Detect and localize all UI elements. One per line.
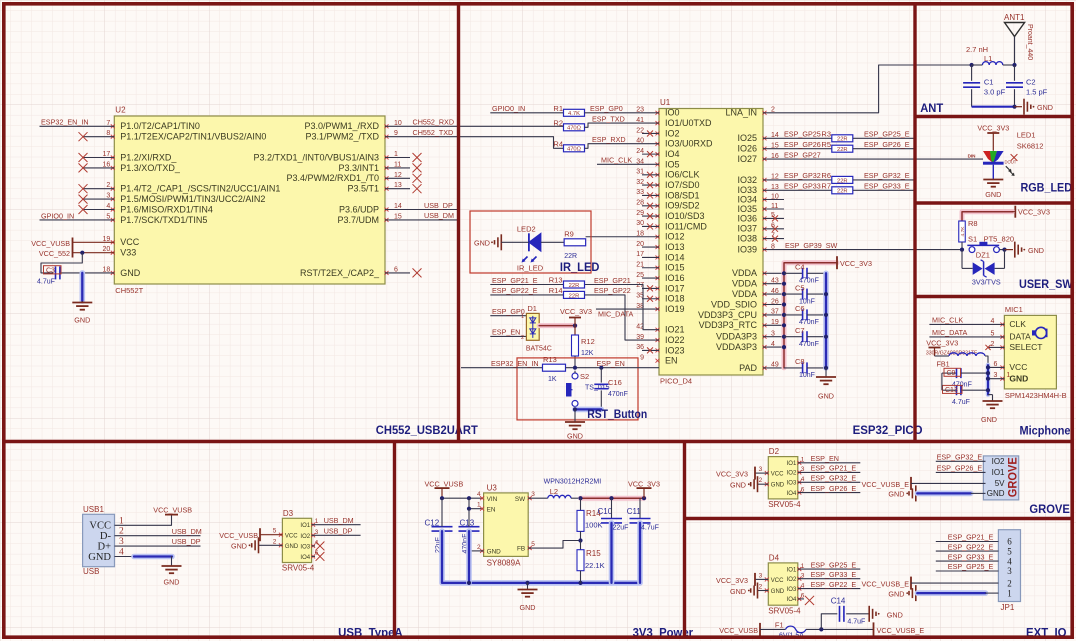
ground symbol cap bank — [816, 368, 836, 401]
svg-text:2: 2 — [1007, 578, 1012, 588]
D3 pin 6 IO4 nc — [300, 549, 324, 561]
section title EXT_IO — [1026, 626, 1067, 640]
power flag VCC_3V3 USER_SW — [1015, 206, 1050, 218]
resistor R2 — [553, 118, 659, 131]
LED2 IR — [517, 224, 544, 272]
svg-text:VCC_3V3: VCC_3V3 — [716, 576, 748, 585]
border divider horizontal main — [2, 440, 1074, 443]
svg-text:PAD: PAD — [739, 363, 757, 373]
svg-text:ESP_EN: ESP_EN — [492, 328, 520, 337]
wire LNA_IN route — [763, 65, 968, 113]
svg-text:P1.7/SCK/TXD1/TIN5: P1.7/SCK/TXD1/TIN5 — [120, 215, 207, 225]
wire ESP_GP25_E — [853, 130, 914, 139]
U2 pin 3 P1.5 — [79, 193, 266, 204]
svg-text:SPM1423HM4H-B: SPM1423HM4H-B — [1005, 391, 1067, 400]
JP1 pin 3 — [936, 562, 1012, 576]
power flag VCC_3V3 out — [628, 480, 660, 499]
svg-text:ESP_GP26_E: ESP_GP26_E — [864, 140, 910, 149]
U3 pin 4 VIN — [477, 491, 498, 503]
svg-text:D1: D1 — [527, 304, 537, 313]
U1 pin 23 IO0 — [636, 107, 679, 118]
power flag VCC_VUSB at D3 — [219, 528, 260, 541]
JP1 pin 4 — [936, 552, 1012, 566]
svg-text:VDDA: VDDA — [732, 289, 757, 299]
svg-text:2: 2 — [521, 335, 524, 341]
no-connect DOUT — [1011, 154, 1018, 161]
svg-text:USB: USB — [83, 567, 99, 576]
svg-text:P3.4/PWM2/RXD1_/T0: P3.4/PWM2/RXD1_/T0 — [286, 173, 379, 183]
D4 pin 3 IO2 — [787, 570, 861, 583]
svg-text:S2: S2 — [580, 372, 589, 381]
svg-text:IO1/U0TXD: IO1/U0TXD — [665, 118, 712, 128]
border divider USB_TypeA/3V3_Power — [393, 442, 396, 640]
section title USB_TypeA — [338, 626, 403, 640]
resistor R12 pullup — [572, 326, 595, 368]
svg-text:CH552_TXD: CH552_TXD — [413, 128, 454, 137]
svg-text:SY8089A: SY8089A — [487, 558, 521, 567]
border divider 3V3_Power/GROVE column — [683, 442, 686, 640]
wire R8 to SW node — [960, 242, 964, 252]
svg-text:P3.1/PWM2_/TXD: P3.1/PWM2_/TXD — [305, 132, 379, 142]
USB1 pin 4 GND — [88, 548, 124, 563]
resistor R14 100K — [577, 498, 603, 542]
svg-text:VCC_VUSB: VCC_VUSB — [425, 480, 464, 489]
border divider USER_SW/Micphone — [915, 295, 1074, 298]
svg-text:3: 3 — [759, 466, 763, 473]
svg-text:VDDA3P3: VDDA3P3 — [716, 332, 757, 342]
svg-text:VCC: VCC — [771, 578, 784, 584]
U1 pin 28 IO9/SD2 — [636, 200, 699, 211]
svg-text:F1: F1 — [775, 621, 784, 630]
power flag VCC_3V3 at D2 — [716, 467, 755, 480]
svg-text:4.7K: 4.7K — [960, 226, 966, 237]
svg-text:ESP_GP21_E: ESP_GP21_E — [811, 464, 857, 473]
svg-text:3V3/TVS: 3V3/TVS — [972, 278, 1001, 287]
svg-text:EN: EN — [665, 356, 678, 366]
JP1 pin 6 — [936, 533, 1012, 547]
svg-text:IO16: IO16 — [665, 273, 685, 283]
svg-text:ESP_GP32_E: ESP_GP32_E — [864, 171, 910, 180]
svg-text:12K: 12K — [581, 350, 594, 357]
U2 pin 10 P3.0 — [304, 120, 401, 131]
svg-text:GND: GND — [567, 431, 583, 440]
svg-text:C4: C4 — [795, 263, 805, 272]
U1 pin 20 IO13 — [636, 241, 684, 252]
svg-text:22R: 22R — [837, 189, 848, 195]
svg-text:470nF: 470nF — [608, 391, 628, 398]
svg-text:VDD3P3_RTC: VDD3P3_RTC — [699, 320, 758, 330]
svg-text:22R: 22R — [569, 293, 580, 299]
svg-text:VCC: VCC — [771, 472, 784, 478]
svg-text:VCC_VUSB_E: VCC_VUSB_E — [877, 626, 925, 635]
net label ESP_GP0 — [590, 104, 623, 113]
svg-text:EN: EN — [487, 507, 496, 514]
svg-text:ESP_GP32: ESP_GP32 — [784, 171, 821, 180]
svg-text:V33: V33 — [120, 248, 136, 258]
U2 pin 20 V33 — [73, 246, 137, 257]
svg-text:DATA: DATA — [1009, 332, 1031, 342]
svg-text:ESP_GP21: ESP_GP21 — [594, 276, 631, 285]
GROVE pin GND — [987, 489, 1005, 498]
wire MIC_DATA to U1 IO19 — [596, 309, 659, 318]
U2 pin 18 GND — [80, 266, 141, 277]
svg-text:VCC: VCC — [285, 533, 298, 539]
capacitor C16 — [594, 368, 628, 410]
svg-text:4: 4 — [1007, 556, 1012, 566]
svg-text:470Ω: 470Ω — [567, 126, 582, 132]
USB1 pin 3 D+ — [97, 537, 124, 552]
svg-text:IO2: IO2 — [992, 457, 1005, 466]
U1 pin 2 LNA_IN — [725, 107, 775, 118]
svg-text:3: 3 — [531, 491, 535, 498]
svg-text:VCC_VUSB: VCC_VUSB — [153, 506, 192, 515]
ground symbol RGB — [983, 180, 1003, 200]
svg-text:C3: C3 — [46, 267, 55, 274]
U1 pin 10 IO34 — [737, 193, 784, 204]
U1 pin 24 IO4 — [636, 148, 679, 159]
wire USB_DM from U2 — [385, 211, 457, 220]
capacitor C14 4.7uF — [821, 597, 869, 630]
svg-text:R1: R1 — [553, 104, 563, 113]
svg-text:22R: 22R — [564, 253, 577, 260]
border divider GROVE/EXT_IO — [685, 517, 1075, 520]
svg-text:CLK: CLK — [1009, 319, 1026, 329]
section title ESP32_PICO — [853, 423, 923, 437]
wire USB_DM from USB1 — [115, 527, 202, 536]
svg-text:MIC_CLK: MIC_CLK — [601, 156, 632, 165]
svg-text:4.7uF: 4.7uF — [847, 619, 865, 626]
section title ANT — [920, 101, 944, 115]
capacitor C1 3.0pF — [963, 65, 1005, 107]
svg-text:L1: L1 — [984, 54, 992, 63]
chip U1 ESP32-PICO-D4 body — [659, 98, 763, 386]
svg-text:JP1: JP1 — [1001, 603, 1015, 612]
svg-text:ESP_GP25_E: ESP_GP25_E — [948, 562, 994, 571]
D4 pin 3 VCC — [755, 572, 784, 584]
svg-text:IO18: IO18 — [665, 294, 685, 304]
U2 pin 11 P3.3 — [338, 161, 421, 172]
U2 pin 8 P1.1 — [79, 130, 267, 141]
svg-text:Proant_440: Proant_440 — [1026, 24, 1033, 60]
svg-text:IO15: IO15 — [665, 263, 685, 273]
U1 pin 43 VDDA — [732, 278, 784, 289]
svg-text:100K: 100K — [585, 521, 603, 530]
svg-text:GND: GND — [771, 483, 785, 489]
svg-text:VCC: VCC — [120, 237, 140, 247]
svg-text:IO26: IO26 — [737, 144, 757, 154]
svg-text:IO1: IO1 — [300, 523, 310, 529]
MIC1 pin 5 DATA — [929, 328, 1031, 342]
LED1 SK6812 RGB — [968, 131, 1044, 165]
svg-text:VCC_3V3: VCC_3V3 — [1018, 208, 1050, 217]
svg-text:IO27: IO27 — [737, 154, 757, 164]
svg-text:GPIO0_IN: GPIO0_IN — [41, 211, 74, 220]
svg-text:ESP_GP33: ESP_GP33 — [784, 182, 821, 191]
JP1 pin 5 — [936, 542, 1012, 556]
wire CH552_TXD — [385, 128, 564, 148]
power flag VCC_3V3 cap bank — [837, 256, 872, 269]
svg-text:22R: 22R — [837, 147, 848, 153]
svg-text:IO32: IO32 — [737, 175, 757, 185]
svg-text:IO3: IO3 — [787, 587, 797, 593]
MIC1 pins 3 1 GND — [986, 372, 1028, 384]
svg-text:IO19: IO19 — [665, 304, 685, 314]
USB1 pin 1 VCC — [89, 516, 124, 531]
svg-text:470nF: 470nF — [799, 341, 819, 348]
capacitor C11 4.7uF — [627, 498, 659, 583]
svg-text:VCC: VCC — [1009, 362, 1027, 372]
svg-text:IO2: IO2 — [300, 534, 310, 540]
U3 pin 1 EN — [477, 502, 496, 514]
U1 pin 26 VDD_SDIO — [711, 298, 784, 309]
wire MIC_CLK to U1 IO5 — [597, 156, 659, 165]
U1 pin 11 IO35 — [737, 203, 784, 214]
U3 pin 5 FB — [517, 541, 580, 553]
net label VCC_552 — [39, 249, 70, 258]
D4 pin 4 IO3 — [787, 580, 861, 593]
capacitor C2 1.5pF — [1006, 65, 1048, 107]
switch S2 TS_015 — [567, 371, 610, 410]
U1 pin 31 IO6/CLK — [636, 169, 699, 180]
svg-text:C11: C11 — [627, 507, 642, 516]
svg-text:D2: D2 — [769, 447, 780, 456]
svg-text:VCC_3V3: VCC_3V3 — [926, 338, 958, 347]
svg-text:SK6812: SK6812 — [1017, 142, 1044, 151]
svg-text:IO36: IO36 — [737, 213, 757, 223]
svg-text:470Ω: 470Ω — [567, 147, 582, 153]
wire ESP_GP21 route to IO21 — [490, 276, 659, 330]
ground symbol power — [518, 583, 538, 612]
D3 pin 3 IO2 USB_DP — [300, 526, 360, 539]
svg-text:IO39: IO39 — [737, 245, 757, 255]
U1 pin 46 VDDA — [732, 288, 784, 299]
svg-text:CH552_RXD: CH552_RXD — [413, 118, 455, 127]
ground symbol at D2 (side) — [730, 476, 757, 492]
svg-text:VDDA: VDDA — [732, 279, 757, 289]
svg-text:VDD3P3_CPU: VDD3P3_CPU — [698, 310, 757, 320]
svg-text:MIC_DATA: MIC_DATA — [598, 309, 633, 318]
U2 pin 19 VCC — [73, 236, 140, 247]
svg-text:ESP_GP25: ESP_GP25 — [784, 130, 821, 139]
section title Micphone — [1020, 424, 1071, 438]
svg-text:VIN: VIN — [487, 496, 498, 503]
svg-text:2: 2 — [759, 584, 763, 591]
D3 pin 2 GND — [259, 538, 299, 550]
D2 pin 1 IO1 ESP_EN — [787, 454, 861, 467]
svg-text:ESP_EN: ESP_EN — [811, 454, 839, 463]
svg-text:D3: D3 — [283, 509, 294, 518]
svg-text:Micphone: Micphone — [1020, 424, 1071, 438]
U1 pin 44 VDDA — [732, 268, 784, 278]
connector JP1 body — [998, 530, 1020, 612]
svg-text:DIN: DIN — [968, 154, 977, 159]
wire ESP_GP22 route to IO22 — [490, 286, 659, 340]
svg-text:ESP_GP27: ESP_GP27 — [784, 150, 821, 159]
ground symbol mic — [981, 395, 1002, 424]
wire gnd rail power — [442, 531, 640, 585]
svg-text:GND: GND — [888, 589, 904, 598]
svg-text:5V: 5V — [995, 479, 1005, 488]
svg-text:ESP_GP32_E: ESP_GP32_E — [811, 474, 857, 483]
svg-text:R13: R13 — [549, 276, 563, 285]
U2 pin 1 P3.2 — [253, 151, 421, 162]
svg-text:ESP_GP0: ESP_GP0 — [590, 104, 623, 113]
power flag VCC_3V3 at D4 — [716, 573, 755, 586]
wire VCC to R8 — [962, 212, 1015, 221]
svg-text:ESP_GP21_E: ESP_GP21_E — [948, 533, 994, 542]
U1 pin 6 IO37 — [737, 223, 784, 234]
U1 pin 32 IO7/SD0 — [636, 179, 699, 190]
svg-text:RST/T2EX_/CAP2_: RST/T2EX_/CAP2_ — [300, 268, 380, 278]
wire ANT gnd rail — [972, 105, 1022, 109]
svg-text:6: 6 — [1007, 537, 1012, 547]
svg-text:GND: GND — [285, 544, 299, 550]
wire ESP_GP27 to RGB LED — [763, 150, 983, 159]
svg-text:LED1: LED1 — [1017, 131, 1036, 140]
svg-text:GROVE: GROVE — [1029, 502, 1070, 516]
wire ESP_EN node — [566, 359, 660, 370]
group box RST_Button — [517, 358, 638, 420]
USB1 pin 2 D- — [100, 527, 124, 542]
svg-text:R14: R14 — [549, 286, 563, 295]
svg-text:2: 2 — [477, 544, 481, 551]
U1 pin 40 IO3/U0RXD — [636, 138, 713, 149]
svg-text:IO3: IO3 — [300, 544, 310, 550]
svg-text:IO5: IO5 — [665, 159, 680, 169]
D2 pin 3 IO2 ESP_GP21_E — [787, 464, 861, 477]
capacitor C6 470nF — [784, 304, 826, 326]
svg-text:SRV05-4: SRV05-4 — [768, 500, 801, 509]
svg-text:D4: D4 — [769, 553, 780, 562]
ground symbol RST — [565, 409, 585, 440]
power flag VCC_VUSB_E at F1 — [842, 622, 924, 636]
wire JP1 gnd — [917, 590, 998, 596]
wire LED2 to R9 — [541, 241, 564, 243]
U1 pin 38 IO19 — [636, 303, 684, 314]
U1 pin 41 IO1/U0TXD — [636, 117, 712, 128]
U1 pin 12 IO32 — [737, 174, 778, 185]
svg-text:L2: L2 — [550, 487, 558, 496]
inductor L2 2.2uH — [544, 479, 602, 499]
wire ESP_GP26_E — [853, 140, 914, 149]
svg-text:IR_LED: IR_LED — [560, 260, 600, 274]
resistor R13 1K — [543, 355, 566, 383]
D2 pin 3 VCC — [755, 466, 784, 478]
svg-text:RGB_LED: RGB_LED — [1021, 180, 1073, 194]
svg-text:IO3/U0RXD: IO3/U0RXD — [665, 139, 713, 149]
ground symbol IR (side) — [474, 234, 521, 250]
svg-text:4.7uF: 4.7uF — [952, 399, 970, 406]
wire ESP_GP32 — [763, 171, 832, 180]
U1 pin 14 IO25 — [737, 132, 778, 143]
U2 pin 6 RST — [300, 266, 422, 277]
svg-text:FB: FB — [517, 546, 525, 553]
svg-text:22uF: 22uF — [613, 525, 629, 532]
U2 pin 9 P3.1 — [305, 130, 398, 141]
wire RST gnd run — [573, 407, 601, 411]
svg-text:ESP_GP39_SW: ESP_GP39_SW — [785, 241, 838, 250]
chip U3 SY8089A body — [484, 484, 529, 568]
capacitor C8 10nF — [784, 357, 826, 379]
svg-text:C9: C9 — [947, 370, 956, 377]
svg-text:VDDA: VDDA — [732, 268, 757, 278]
svg-text:IR_LED: IR_LED — [517, 264, 544, 273]
svg-text:IO0: IO0 — [665, 108, 680, 118]
svg-text:IO22: IO22 — [665, 335, 685, 345]
svg-text:1: 1 — [1007, 588, 1012, 598]
svg-text:GND: GND — [987, 489, 1005, 498]
svg-text:GND: GND — [74, 316, 90, 325]
svg-text:GPIO0_IN: GPIO0_IN — [492, 104, 525, 113]
ferrite bead FB1 — [926, 350, 988, 368]
wire GPIO0_IN to R1 — [490, 104, 563, 113]
svg-text:1: 1 — [1006, 372, 1010, 379]
U1 pin 13 IO33 — [737, 184, 778, 195]
svg-text:C1: C1 — [984, 78, 994, 87]
svg-text:C10: C10 — [598, 507, 613, 516]
net label ESP_RXD — [592, 135, 626, 144]
capacitor C4 470nF — [784, 263, 826, 285]
section title IR_LED — [560, 260, 600, 274]
ground symbol at D4 (side) — [730, 583, 757, 599]
svg-text:IO37: IO37 — [737, 224, 757, 234]
svg-text:IO38: IO38 — [737, 234, 757, 244]
svg-text:USB_DP: USB_DP — [172, 537, 201, 546]
D3 pin 5 VCC — [260, 528, 298, 540]
JP1 pin 2 — [1007, 578, 1012, 588]
svg-text:ESP_GP21_E: ESP_GP21_E — [492, 276, 538, 285]
section title CH552_USB2UART — [376, 423, 479, 437]
U2 pin 12 P3.4 — [286, 172, 421, 183]
MIC1 pin 2 SELECT — [985, 341, 1042, 352]
svg-text:IO11/CMD: IO11/CMD — [665, 221, 707, 231]
capacitor C10 22uF — [598, 498, 629, 583]
svg-text:5: 5 — [1007, 546, 1012, 556]
svg-text:VCC_3V3: VCC_3V3 — [977, 124, 1009, 133]
svg-text:GND: GND — [487, 549, 502, 556]
inductor L1 2.7nH — [966, 45, 1017, 67]
svg-text:ANT1: ANT1 — [1004, 13, 1025, 22]
D2 pin 4 IO3 ESP_GP32_E — [787, 474, 861, 487]
U1 pin 35 IO18 — [636, 293, 684, 304]
svg-text:GND: GND — [730, 481, 746, 490]
resistor R6 22R — [821, 171, 852, 184]
JP1 pin 1 — [1007, 588, 1012, 598]
svg-text:3: 3 — [1007, 566, 1012, 576]
svg-text:IO1: IO1 — [787, 567, 797, 573]
U1 pin 5 IO36 — [737, 212, 784, 223]
svg-text:MIC1: MIC1 — [1005, 305, 1023, 314]
svg-text:1: 1 — [521, 314, 524, 320]
svg-text:ESP_GP32_E: ESP_GP32_E — [937, 453, 983, 462]
GROVE pin IO2 — [936, 453, 1005, 467]
svg-text:2: 2 — [759, 477, 763, 484]
U2 pin 2 P1.4 — [79, 182, 281, 193]
U1 pin 17 IO14 — [636, 251, 684, 262]
svg-text:P1.4/T2_/CAP1_/SCS/TIN2/UCC1/A: P1.4/T2_/CAP1_/SCS/TIN2/UCC1/AIN1 — [120, 184, 280, 194]
U1 pin 37 VDD3P3_CPU — [698, 309, 784, 320]
svg-text:VCC_VUSB: VCC_VUSB — [31, 239, 70, 248]
wire S1 to gnd — [1005, 249, 1014, 251]
resistor R4 — [553, 139, 659, 152]
wire VCC_3V3 rail at U1 — [784, 263, 837, 368]
power flag VCC_VUSB 3V3 — [425, 480, 464, 499]
svg-text:U1: U1 — [660, 98, 671, 107]
resistor R14 (GP22) — [549, 286, 585, 299]
svg-text:P1.2/XI/RXD_: P1.2/XI/RXD_ — [120, 152, 177, 162]
border divider RGB_LED/USER_SW — [915, 201, 1074, 204]
svg-text:P3.2/TXD1_/INT0/VBUS1/AIN3: P3.2/TXD1_/INT0/VBUS1/AIN3 — [253, 152, 379, 162]
